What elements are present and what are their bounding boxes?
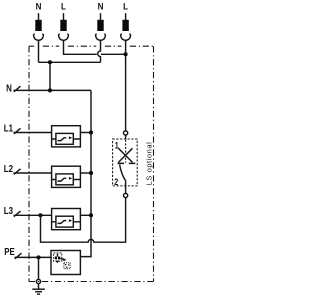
terminal 2 plug contact: [59, 34, 69, 40]
terminal 3 body: [97, 20, 103, 31]
wire L2 line: [14, 172, 52, 174]
SPD L1 arrow head: [69, 136, 72, 139]
terminal 1 plug contact: [34, 34, 44, 40]
terminal 4 body: [122, 20, 128, 31]
spark gap module PE outer box: [51, 251, 80, 275]
LS optional dashed box: [113, 139, 138, 186]
enclosure border right: [153, 46, 155, 281]
svg-text:L3: L3: [4, 205, 13, 216]
terminal 4 lead: [125, 13, 127, 20]
L1 line break slash: [14, 128, 21, 134]
SPD L2 inner element pins: [52, 179, 81, 181]
L2 line break slash: [14, 169, 21, 175]
wire L continuation after crossing: [101, 53, 126, 55]
enclosure border top: [29, 45, 154, 47]
SPD L2 varistor lightning symbol: [58, 178, 67, 181]
wire from terminal 1 down: [38, 40, 40, 62]
wire L3 branch to LS (down and right with hop over N bus): [41, 198, 126, 243]
svg-text:PE: PE: [4, 246, 14, 257]
breaker blade: [120, 165, 126, 181]
breaker X symbol: [118, 148, 132, 162]
node L3 to N bus: [89, 213, 93, 217]
wire L3 line: [14, 214, 52, 216]
terminal 1 body: [35, 20, 41, 31]
terminal 2 body: [60, 20, 66, 31]
SPD L1 inner element box: [56, 133, 73, 144]
wire N terminals bus: [39, 61, 101, 63]
svg-text:L: L: [123, 1, 128, 12]
SPD L3 varistor lightning symbol: [58, 221, 67, 224]
svg-text:L2: L2: [4, 163, 13, 174]
node L terminals junction: [124, 52, 128, 56]
wire into LS box: [125, 135, 127, 139]
node N terminals to N line: [48, 60, 52, 64]
wire N bus down right side: [80, 90, 91, 256]
spark gap lower arrowhead: [56, 261, 60, 264]
svg-text:L: L: [61, 1, 66, 12]
terminal 1 lead: [38, 13, 40, 20]
svg-text:L1: L1: [4, 122, 13, 133]
spark gap dashed enclosure: [54, 253, 62, 261]
wire from terminal 3 with hop over L wire: [98, 40, 101, 62]
SPD L1 varistor lightning symbol: [58, 138, 67, 141]
earth ground symbol: [32, 284, 45, 295]
SPD L3 inner element pins: [52, 221, 81, 223]
wire LS bottom: [125, 180, 127, 193]
PE boundary terminal circle: [36, 279, 40, 283]
svg-text:2: 2: [114, 177, 118, 187]
spark gap arrow right: [60, 258, 64, 259]
LS terminal circle bottom: [124, 193, 128, 197]
SPD module L2 outer box: [52, 166, 81, 187]
node L3 to LS branch: [38, 213, 42, 217]
wire from terminal 2 to L junction: [64, 40, 97, 54]
breaker fixed contacts: [118, 162, 136, 164]
wire L1 line: [14, 132, 52, 134]
svg-text:LS optional: LS optional: [144, 142, 153, 186]
node L1 to N bus: [89, 130, 93, 134]
terminal 2 lead: [63, 13, 65, 20]
spark gap vertical stub: [57, 254, 59, 257]
wire N line: [14, 89, 92, 91]
LS terminal circle top: [124, 131, 128, 135]
wire N drop to N line: [49, 62, 51, 90]
wire from terminal 4 down to LS branch: [125, 40, 127, 131]
breaker link dashed: [125, 140, 127, 163]
node PE to earth: [36, 255, 40, 259]
wire L2 output: [80, 172, 91, 174]
enclosure border left: [28, 46, 30, 281]
node N line junction: [48, 88, 52, 92]
SPD module L1 outer box: [52, 126, 81, 147]
terminal 3 plug contact: [96, 34, 106, 40]
terminal 3 lead: [100, 13, 102, 20]
wire L1 output: [80, 132, 91, 134]
terminal 4 plug contact: [121, 34, 131, 40]
node L2 to N bus: [89, 171, 93, 175]
SPD L3 inner element box: [56, 216, 73, 227]
SPD L1 inner element pins: [52, 138, 81, 140]
svg-text:N: N: [36, 1, 42, 12]
gas tube icon: [64, 263, 70, 269]
SPD L3 arrow head: [69, 219, 72, 222]
svg-text:N: N: [6, 82, 12, 93]
spark gap electrodes: [55, 257, 57, 260]
svg-text:N: N: [98, 1, 104, 12]
wire PE line: [15, 256, 52, 258]
SPD module L3 outer box: [52, 209, 81, 230]
N line break slash: [14, 86, 21, 92]
enclosure border bottom: [94, 281, 154, 283]
PE line break slash: [15, 253, 22, 259]
wire L3 output: [80, 214, 91, 216]
SPD L2 inner element box: [56, 174, 73, 185]
wire PE earth branch: [38, 257, 40, 279]
SPD L2 arrow head: [69, 177, 72, 180]
L3 line break slash: [14, 211, 21, 217]
